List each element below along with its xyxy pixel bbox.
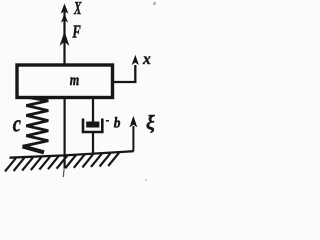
xi axis line <box>132 126 134 152</box>
X axis line tail below hatching <box>62 168 65 177</box>
mass m box <box>17 65 113 98</box>
scan speck bottom right <box>145 179 147 181</box>
ground hatching <box>5 153 119 172</box>
svg-text:ξ: ξ <box>146 112 156 134</box>
spring c <box>23 98 49 147</box>
tick dash <box>106 120 109 122</box>
svg-text:c: c <box>13 110 21 137</box>
X axis line below mass <box>63 96 65 168</box>
damper rod upper <box>92 97 94 122</box>
damper cylinder cup <box>83 119 102 133</box>
svg-text:b: b <box>114 115 121 131</box>
svg-text:F: F <box>72 21 81 41</box>
scan speck top right <box>153 2 156 5</box>
X axis line <box>63 6 65 64</box>
x axis arrowhead <box>132 55 139 65</box>
svg-text:x: x <box>142 51 151 68</box>
damper piston <box>86 122 99 128</box>
svg-text:X: X <box>73 0 82 18</box>
damper rod lower <box>92 133 94 153</box>
spring bottom coil <box>23 146 45 152</box>
X axis arrowhead <box>61 4 69 14</box>
force F arrowhead <box>60 31 70 46</box>
x axis connector wire <box>114 65 135 82</box>
ground line <box>10 151 134 158</box>
xi axis arrowhead <box>130 116 138 128</box>
svg-text:m: m <box>70 72 80 89</box>
middle arrowhead <box>61 14 68 23</box>
